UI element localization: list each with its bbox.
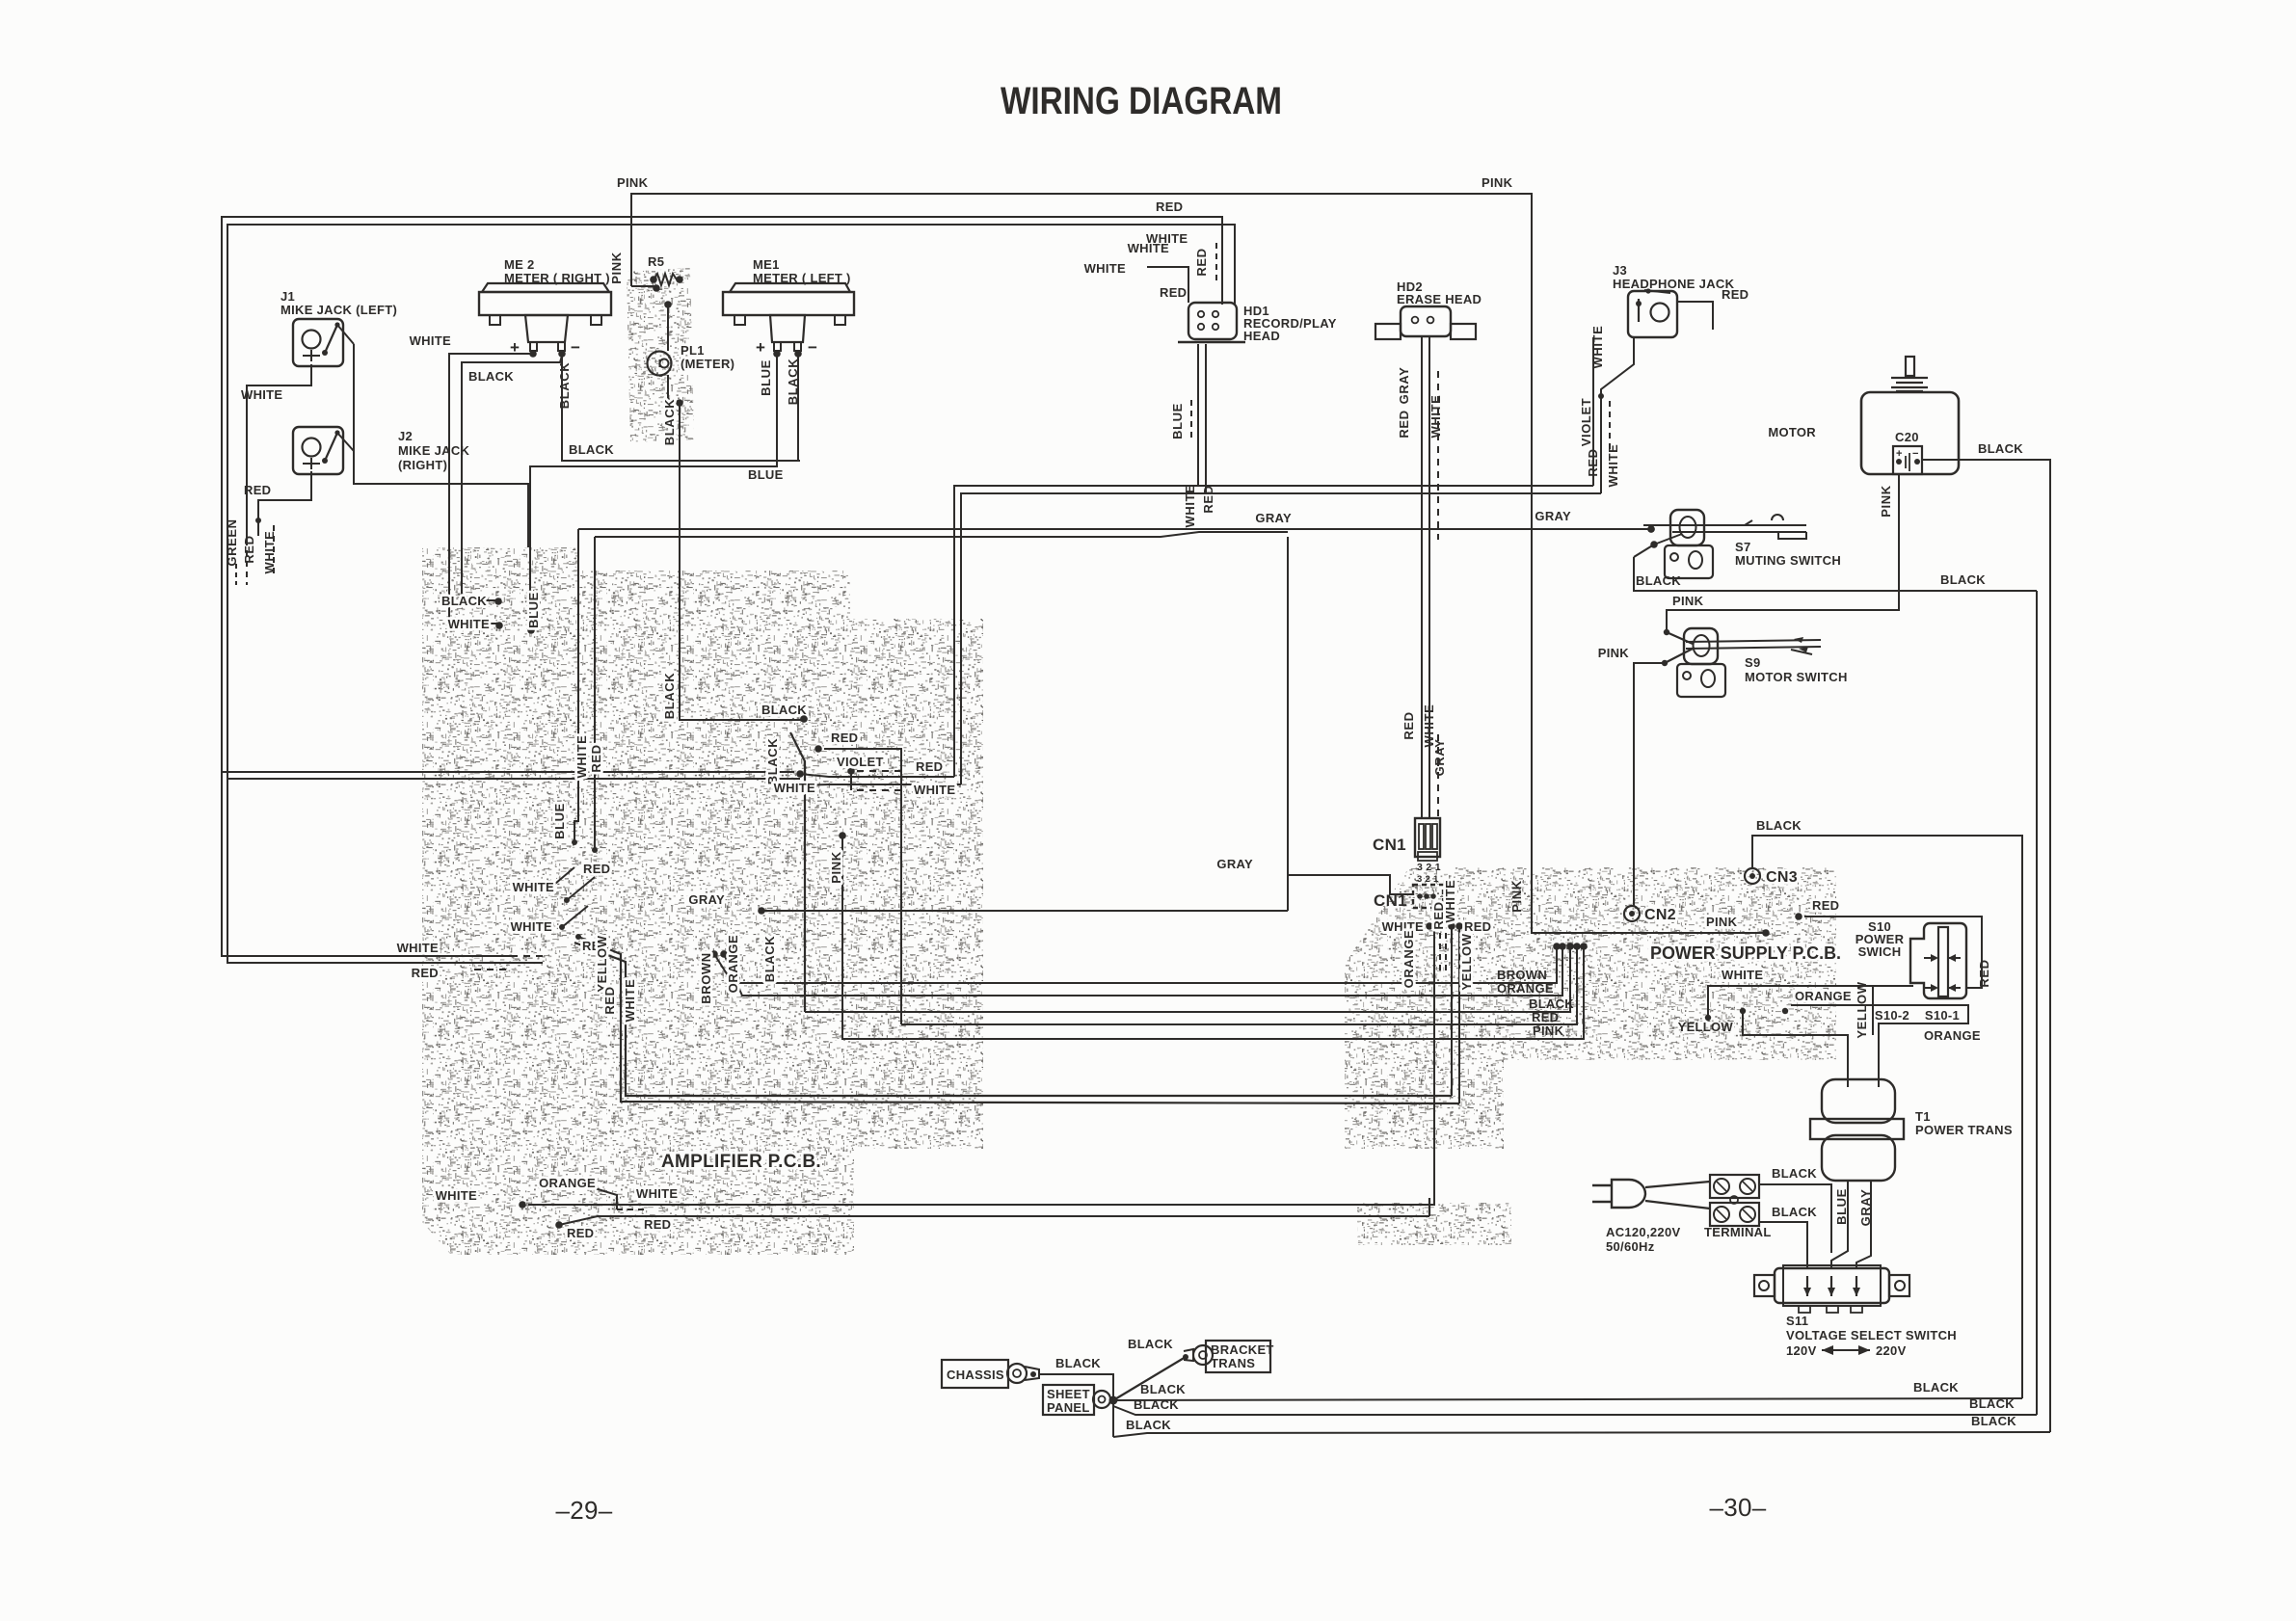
label BLACK rotated PL1 low [662, 673, 677, 720]
label RED CN1 [1464, 919, 1491, 934]
label ORANGE S10 low [1924, 1028, 1981, 1043]
label BLACK g2 left [1134, 1397, 1179, 1412]
svg-text:−: − [571, 338, 580, 357]
svg-text:BLACK: BLACK [1529, 997, 1574, 1011]
label YELLOW rotated [595, 935, 609, 992]
label J2 [398, 429, 470, 472]
connector CN1 top [1415, 818, 1440, 861]
label 321 top [1417, 862, 1441, 873]
svg-text:GRAY: GRAY [1858, 1189, 1873, 1227]
svg-text:BLACK: BLACK [1636, 573, 1681, 588]
svg-text:WHITE: WHITE [241, 387, 282, 402]
svg-text:WHITE: WHITE [513, 880, 554, 894]
power switch S10 [1910, 923, 1966, 998]
wire RED vertical amp [592, 537, 598, 853]
label HD2 [1397, 279, 1482, 306]
wire GRAY to CN1 [758, 537, 1413, 915]
label BLACK CN3 [1756, 818, 1802, 833]
label S11 [1786, 1314, 1957, 1342]
wire BLACK S7 right riser [2036, 591, 2038, 1415]
wire CN1 dashed stubs [1440, 933, 1446, 975]
wire PINK S9 to CN2 [1634, 660, 1668, 906]
label BROWN rotated [699, 952, 713, 1004]
svg-text:BLACK: BLACK [1140, 1382, 1186, 1396]
svg-text:BLACK: BLACK [1913, 1380, 1959, 1395]
svg-text:−: − [1912, 448, 1919, 460]
svg-text:C20: C20 [1895, 430, 1919, 444]
svg-text:BLACK: BLACK [1772, 1166, 1817, 1181]
record play head HD1 [1178, 303, 1245, 342]
label WHITE CN1 [1382, 919, 1424, 934]
label AMPLIFIER PCB [661, 1152, 821, 1172]
svg-text:3 2 1: 3 2 1 [1417, 862, 1441, 873]
svg-text:BLUE: BLUE [526, 592, 541, 628]
svg-text:ERASE HEAD: ERASE HEAD [1397, 292, 1482, 306]
label ME2 [504, 257, 610, 285]
wire WHITE long pair [961, 493, 1601, 784]
wire WHITE vertical amp [572, 529, 578, 845]
label RED violet [831, 731, 858, 745]
svg-text:J3: J3 [1613, 263, 1627, 278]
label R5 [648, 254, 664, 269]
wire BLACK S7 [1634, 557, 2037, 591]
svg-text:YELLOW: YELLOW [1678, 1020, 1734, 1034]
label WHITE stair2 [511, 919, 552, 934]
label VIOLET [837, 755, 884, 769]
label BLACK terminal bottom [1772, 1205, 1817, 1219]
wire J1 sleeve WHITE [247, 364, 311, 585]
wire BLACK ground 3 [1113, 1432, 2050, 1437]
svg-text:MUTING SWITCH: MUTING SWITCH [1735, 553, 1841, 568]
label BLACK rotated ME1 [786, 359, 800, 406]
chassis lug [942, 1360, 1039, 1388]
wire BLACK terminal top [1759, 1184, 1831, 1195]
svg-text:MIKE JACK (LEFT): MIKE JACK (LEFT) [280, 303, 397, 317]
mike jack J1 [293, 319, 354, 366]
svg-text:120V: 120V [1786, 1343, 1817, 1358]
label WHITE rotated J3 low [1606, 444, 1620, 488]
svg-text:RED: RED [1194, 248, 1209, 276]
wire PL1 black down [680, 403, 808, 723]
label YELLOW rotated S10 [1855, 981, 1869, 1038]
svg-text:WHITE: WHITE [574, 735, 589, 779]
svg-text:–29–: –29– [555, 1496, 612, 1525]
svg-text:WHITE: WHITE [1606, 444, 1620, 488]
label RED pair [916, 759, 943, 774]
node VIOLET [847, 767, 906, 790]
svg-text:RED: RED [1586, 448, 1600, 476]
label WHITE rotated HD1 [1183, 485, 1197, 528]
svg-text:BLACK: BLACK [1756, 818, 1802, 833]
label BLACK ME2 [468, 369, 514, 384]
svg-text:J1: J1 [280, 289, 295, 304]
svg-text:BLACK: BLACK [786, 359, 800, 406]
svg-text:220V: 220V [1876, 1343, 1907, 1358]
svg-text:HEADPHONE JACK: HEADPHONE JACK [1613, 277, 1735, 291]
page number 29 [555, 1496, 612, 1525]
svg-text:BLUE: BLUE [552, 803, 567, 839]
svg-text:WHITE: WHITE [774, 781, 815, 795]
svg-text:RED: RED [412, 966, 439, 980]
muting switch S7 [1634, 510, 1806, 578]
svg-text:+: + [1896, 448, 1903, 460]
label WHITE HD1 b [1084, 261, 1126, 276]
ac plug [1592, 1180, 1645, 1208]
node CN1 red pins [1448, 922, 1463, 930]
svg-text:AMPLIFIER P.C.B.: AMPLIFIER P.C.B. [661, 1152, 821, 1172]
svg-text:RED: RED [589, 744, 603, 772]
label ORANGE rotated CN1 [1402, 930, 1416, 989]
wire RED to pair riser [796, 770, 954, 778]
svg-text:RED: RED [1402, 711, 1416, 739]
label BLACK g3 left [1126, 1418, 1171, 1432]
svg-text:WHITE: WHITE [1428, 395, 1443, 438]
label BLACK g3 right [1971, 1414, 2016, 1428]
label WHITE J1 [241, 387, 282, 402]
label ORANGE rotated [726, 935, 740, 994]
label VIOLET rotated J3 [1579, 398, 1610, 451]
svg-text:BLACK: BLACK [1134, 1397, 1179, 1412]
label BLACK S7 [1636, 573, 1681, 588]
label GRAY right [1535, 509, 1571, 523]
label PINK rotated bundle [829, 851, 843, 883]
svg-text:WHITE: WHITE [410, 333, 451, 348]
wire ME2 minus down black [562, 354, 800, 461]
label WHITE rotated HD2 [1428, 395, 1443, 438]
label plus ME1 [756, 338, 765, 357]
wire PINK top [631, 194, 1770, 937]
label RED rotated amp [589, 744, 603, 772]
label PINK S9 low [1598, 646, 1630, 660]
wire ME1 blue [527, 354, 777, 634]
wire mid pair risers [1452, 926, 1459, 1103]
label WHITE dashed end [397, 941, 439, 955]
label plus ME2 [510, 338, 520, 357]
svg-text:SWICH: SWICH [1858, 944, 1902, 959]
svg-text:WHITE: WHITE [1183, 485, 1197, 528]
label RED right [1532, 1010, 1559, 1024]
lamp PL1 [648, 301, 683, 407]
svg-text:ORANGE: ORANGE [539, 1176, 596, 1190]
transformer T1 [1810, 1079, 1904, 1181]
label WHITE rotated left [262, 525, 277, 578]
label S7 [1735, 540, 1841, 568]
svg-text:PL1: PL1 [681, 343, 705, 358]
connector CN2 [1624, 906, 1640, 921]
svg-text:VIOLET: VIOLET [837, 755, 884, 769]
wire ME1 black [797, 354, 799, 461]
svg-text:PINK: PINK [1482, 175, 1513, 190]
svg-text:POWER TRANS: POWER TRANS [1915, 1123, 2013, 1137]
svg-text:ORANGE: ORANGE [1402, 930, 1416, 989]
label PINK rotated [609, 252, 624, 283]
svg-text:YELLOW: YELLOW [595, 935, 609, 992]
label minus ME1 [808, 338, 817, 357]
node CN1 white pins [1426, 922, 1438, 930]
svg-text:ORANGE: ORANGE [1924, 1028, 1981, 1043]
label CN3 [1766, 869, 1798, 886]
label RED J3 [1722, 287, 1749, 302]
svg-text:SHEET: SHEET [1047, 1387, 1090, 1401]
label RED amp bottom2 [644, 1217, 671, 1232]
label RED rotated CN1 [1431, 901, 1446, 929]
label J3 [1613, 263, 1735, 291]
wire staircase stubs [547, 867, 1459, 1103]
wire HD2 down left [1421, 336, 1423, 818]
svg-text:WHITE: WHITE [511, 919, 552, 934]
meter ME2 [479, 283, 611, 358]
svg-text:BLACK: BLACK [468, 369, 514, 384]
label WHITE rotated J3 [1590, 326, 1605, 369]
wire J3 red stub [1677, 302, 1713, 330]
wire ORANGE amp bottom [578, 1181, 648, 1212]
svg-text:PINK: PINK [1598, 646, 1630, 660]
svg-text:CN1: CN1 [1373, 836, 1406, 854]
label BLACK bracket [1128, 1337, 1173, 1351]
svg-text:BLACK: BLACK [569, 442, 614, 457]
svg-text:ME 2: ME 2 [504, 257, 535, 272]
label RED dashed end [412, 966, 511, 980]
svg-text:RED: RED [1156, 199, 1183, 214]
svg-text:MOTOR SWITCH: MOTOR SWITCH [1745, 670, 1848, 684]
wire RED violet cluster [814, 745, 901, 1024]
svg-text:HEAD: HEAD [1243, 329, 1280, 343]
svg-text:BLUE: BLUE [1170, 403, 1185, 439]
label RED J2 [244, 483, 271, 497]
svg-text:WHITE: WHITE [436, 1188, 477, 1203]
wire BLACK to bracket [1113, 1357, 1186, 1400]
svg-text:BLUE: BLUE [1834, 1188, 1849, 1225]
label PL1 [681, 343, 734, 371]
svg-text:BLACK: BLACK [1772, 1205, 1817, 1219]
label WHITE low violet [774, 781, 815, 795]
svg-text:R5: R5 [648, 254, 664, 269]
label BLACK rotated ME2 [557, 362, 572, 410]
label S9 [1745, 655, 1848, 684]
svg-text:AC120,220V: AC120,220V [1606, 1225, 1680, 1239]
amplifier PCB stippled area [422, 547, 983, 1255]
svg-text:WHITE: WHITE [1443, 880, 1457, 923]
label YELLOW S10 [1678, 1020, 1734, 1034]
svg-text:BRACKET: BRACKET [1211, 1342, 1274, 1357]
motor [1861, 357, 1959, 474]
svg-text:RED: RED [1812, 898, 1839, 913]
label RED rotated HD1 [1194, 243, 1216, 285]
label S10 [1855, 919, 1905, 959]
wire BROWN bundle [710, 943, 1561, 983]
label RED S10 [1812, 898, 1839, 913]
wire WHITE S10 [1705, 986, 1913, 1021]
label BLACK terminal top [1772, 1166, 1817, 1181]
label YELLOW rotated CN1 [1459, 933, 1474, 990]
svg-text:VIOLET: VIOLET [1579, 398, 1593, 447]
wire WHITE top-left loop [227, 225, 1235, 963]
svg-text:PINK: PINK [1879, 485, 1893, 517]
label CN1 bottom [1374, 891, 1407, 910]
label WHITE HD1 a [1128, 241, 1169, 255]
svg-text:CN3: CN3 [1766, 869, 1798, 886]
wire BLACK bundle [805, 943, 1574, 1012]
label PINK top-right [1482, 175, 1513, 190]
svg-text:BLACK: BLACK [1971, 1414, 2016, 1428]
svg-text:MOTOR: MOTOR [1768, 425, 1816, 439]
svg-text:GRAY: GRAY [1535, 509, 1571, 523]
resistor R5 [650, 274, 683, 292]
label BLACK g1 left [1140, 1382, 1186, 1396]
label CN2 [1644, 907, 1676, 923]
svg-text:WHITE: WHITE [1722, 968, 1763, 982]
label WHITE amp bottom2 [636, 1186, 678, 1201]
label J1 [280, 289, 397, 317]
label RED stair [583, 862, 610, 876]
label BLACK rotated PL1 [662, 399, 677, 446]
svg-text:BLACK: BLACK [441, 594, 487, 608]
wire second line under gray [595, 532, 1288, 537]
wire ME2 black [462, 356, 562, 605]
svg-text:BLACK: BLACK [662, 399, 677, 446]
svg-text:–30–: –30– [1709, 1493, 1766, 1522]
svg-text:−: − [808, 338, 817, 357]
svg-text:POWER SUPPLY P.C.B.: POWER SUPPLY P.C.B. [1650, 943, 1841, 963]
page number 30 [1709, 1493, 1766, 1522]
wire BLACK violet [790, 715, 808, 1012]
svg-text:YELLOW: YELLOW [1459, 933, 1474, 990]
wire RED branch mid-left [222, 771, 794, 773]
svg-text:RED: RED [602, 986, 617, 1014]
label BLUE bus [748, 467, 784, 482]
svg-text:S7: S7 [1735, 540, 1751, 554]
label PINK rotated C20 [1879, 485, 1893, 517]
label T1 [1915, 1109, 2013, 1137]
svg-text:50/60Hz: 50/60Hz [1606, 1239, 1655, 1254]
svg-text:PINK: PINK [609, 252, 624, 283]
label GRAY mid [1255, 511, 1292, 525]
label HD1 [1243, 304, 1337, 343]
label BLUE amp [526, 592, 541, 628]
svg-text:METER ( RIGHT ): METER ( RIGHT ) [504, 271, 610, 285]
label WHITE S10 [1722, 968, 1763, 982]
label RED rotated J3 [1586, 448, 1600, 476]
wire plug to terminal [1645, 1182, 1710, 1209]
wire HD1 down pair [1198, 344, 1206, 493]
wire WHITE to pair riser [790, 782, 961, 789]
label BLUE rotated ME1 [759, 359, 773, 396]
svg-text:RED: RED [831, 731, 858, 745]
svg-text:RED: RED [1201, 485, 1215, 513]
wire BLACK ground 1 [1113, 1398, 2022, 1400]
label RED amp bottom [567, 1226, 594, 1240]
label BLUE rotated T1 [1834, 1188, 1849, 1225]
wire GRAY T1 [1856, 1181, 1871, 1268]
label POWER SUPPLY PCB [1650, 943, 1841, 963]
svg-text:GRAY: GRAY [1216, 857, 1253, 871]
wire PINK to R5 [631, 285, 656, 287]
svg-text:RED: RED [242, 535, 256, 563]
label GRAY rotated T1 [1858, 1189, 1873, 1227]
wire J2 sleeve RED [255, 471, 311, 536]
svg-text:WHITE: WHITE [448, 617, 490, 631]
svg-text:PINK: PINK [1509, 880, 1524, 912]
label ORANGE amp bottom [539, 1176, 596, 1190]
label WHITE rotated CN1 [1443, 880, 1457, 923]
wire ORANGE S10 [1782, 1005, 1968, 1087]
svg-text:WIRING DIAGRAM: WIRING DIAGRAM [1001, 80, 1282, 122]
label PINK top-left [617, 175, 649, 190]
meter lamp stippled strip [627, 268, 694, 443]
svg-text:RED: RED [244, 483, 271, 497]
voltage select switch S11 [1754, 1265, 1909, 1313]
svg-text:PINK: PINK [829, 851, 843, 883]
label 321 bottom [1417, 874, 1439, 885]
svg-text:RED: RED [916, 759, 943, 774]
svg-text:METER ( LEFT ): METER ( LEFT ) [753, 271, 851, 285]
svg-text:PINK: PINK [617, 175, 649, 190]
wire RED amp bottom [555, 1198, 1429, 1229]
label RED top [1156, 199, 1183, 214]
wire BLACK C20 [1922, 460, 2050, 1432]
label RED rotated stair [602, 986, 617, 1014]
svg-text:PANEL: PANEL [1047, 1400, 1090, 1415]
label C20 [1895, 430, 1919, 444]
wire RED into HD1 [1221, 217, 1223, 305]
wire RED S10 [1795, 913, 1982, 988]
label BLACK chassis [1055, 1356, 1101, 1370]
label BLUE rotated HD1 [1170, 400, 1191, 439]
svg-text:RED: RED [1464, 919, 1491, 934]
label AC voltage [1606, 1225, 1680, 1254]
svg-text:RED: RED [1397, 410, 1411, 438]
svg-text:PINK: PINK [1533, 1023, 1564, 1038]
svg-text:RED: RED [1977, 959, 1991, 987]
svg-text:TERMINAL: TERMINAL [1704, 1225, 1772, 1239]
label WHITE amp dot [448, 617, 490, 631]
connector CN1 bottom [1413, 885, 1443, 908]
connector CN3 [1745, 868, 1760, 884]
label minus ME2 [571, 338, 580, 357]
wire WHITE branch mid-left [227, 778, 800, 780]
label PINK right [1533, 1023, 1564, 1038]
svg-text:RED: RED [583, 862, 610, 876]
title [1001, 80, 1282, 122]
svg-text:S9: S9 [1745, 655, 1761, 670]
label ORANGE S10 [1795, 989, 1852, 1003]
svg-text:BLUE: BLUE [759, 359, 773, 396]
wire BLACK ground 2 [1113, 1406, 2037, 1415]
svg-text:ORANGE: ORANGE [726, 935, 740, 994]
svg-text:T1: T1 [1915, 1109, 1931, 1124]
wire PINK bundle [839, 832, 1588, 1039]
svg-text:RED: RED [1160, 285, 1187, 300]
wire HD1 left stub [1147, 267, 1188, 303]
terminal block [1710, 1175, 1759, 1226]
svg-text:WHITE: WHITE [1590, 326, 1605, 369]
svg-text:YELLOW: YELLOW [1855, 981, 1869, 1038]
svg-text:RED: RED [1532, 1010, 1559, 1024]
svg-text:GRAY: GRAY [1397, 367, 1411, 405]
label MOTOR [1768, 425, 1816, 439]
label WHITE rotated stair [623, 979, 637, 1023]
wire J1 J2 tip common [354, 344, 528, 547]
label GRAY near CN1 [1216, 857, 1253, 871]
label S11 voltages [1786, 1343, 1907, 1358]
svg-text:GREEN: GREEN [225, 518, 239, 566]
svg-text:GRAY: GRAY [1432, 739, 1447, 777]
label PINK rotated mid [1509, 880, 1524, 912]
wire BLACK terminal bottom [1759, 1222, 1807, 1268]
label S10-1 [1925, 1008, 1960, 1023]
wire PINK S9 top [1664, 474, 1899, 635]
headphone jack J3 [1628, 288, 1677, 337]
